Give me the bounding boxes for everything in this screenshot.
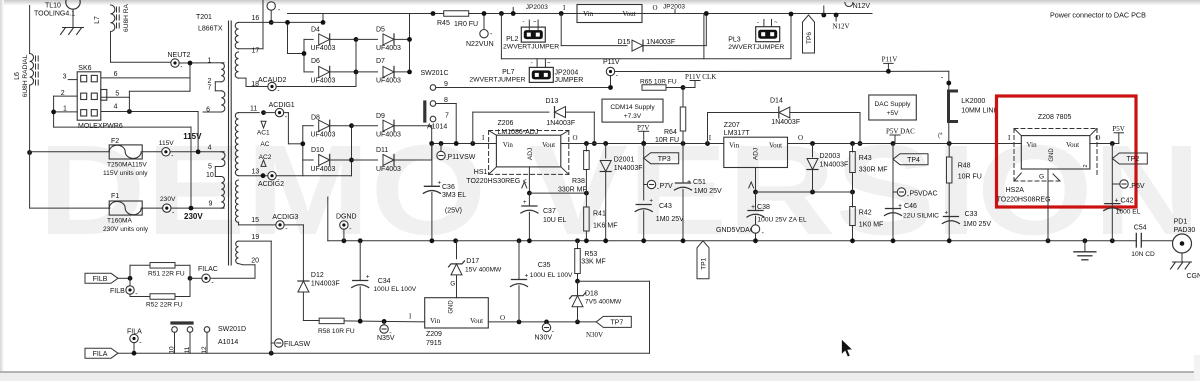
testpoint N22VUN [483,14,485,30]
svg-text:CGN: CGN [1187,273,1200,280]
svg-text:O: O [573,134,578,142]
svg-text:N30V: N30V [586,331,603,339]
resistor R43 330R MF [852,144,854,153]
svg-text:230V: 230V [184,212,203,221]
svg-text:D2001: D2001 [614,157,635,164]
svg-text:P11V CLK: P11V CLK [685,73,716,81]
resistor R42 1K0 MF [852,192,854,207]
resistor R51 22R FU [130,264,150,266]
zener D18 7V5 400MW [572,296,583,307]
inductor L7 6U8H RADIAL [111,5,115,32]
node P11VCLK junction [681,85,686,90]
secondary winding 13-15 [235,180,238,222]
svg-text:8: 8 [444,97,448,104]
testpoint P7V [641,141,646,146]
node D18 junction [575,279,580,284]
svg-text:L7: L7 [94,16,101,24]
svg-text:JUMPER: JUMPER [555,77,584,84]
svg-text:A1014: A1014 [218,339,238,346]
svg-text:Vin: Vin [1027,141,1038,149]
svg-text:Vout: Vout [542,141,555,149]
capacitor C43 1M0 25V [636,204,651,206]
tag TP7 [596,316,631,327]
wire pin20 route [254,265,256,279]
pin 17 wire [239,48,264,50]
svg-text:11: 11 [250,106,257,113]
svg-text:UF4003: UF4003 [376,45,401,52]
svg-text:+ C46: + C46 [898,203,917,210]
svg-text:SK6: SK6 [78,65,91,72]
wire L7 to NEUT2 [110,32,112,63]
secondary winding 17-18 [235,52,238,78]
svg-text:ACDIG2: ACDIG2 [258,181,284,188]
svg-text:100U 25V ZA EL: 100U 25V ZA EL [758,217,807,224]
svg-text:HS1: HS1 [474,169,488,176]
Z207 ADJ wire [755,168,757,193]
tag TP3 [644,153,679,164]
svg-text:9: 9 [209,201,213,208]
Z206 ADJ network [528,167,530,193]
svg-text:P5V DAC: P5V DAC [886,128,915,136]
svg-text:1M0 25V: 1M0 25V [656,216,684,223]
svg-text:T201: T201 [196,14,212,21]
svg-text:10R FU: 10R FU [958,174,982,181]
svg-text:4: 4 [208,145,212,152]
svg-text:Vin: Vin [583,10,594,18]
svg-text:N35V: N35V [377,335,395,342]
testpoint N12V top [821,13,826,18]
svg-text:TL10: TL10 [45,3,61,10]
svg-text:+7.3V: +7.3V [624,113,642,120]
bridge1 left column [303,39,305,72]
wire 115V line [30,151,110,153]
testpoint N30V [546,322,548,323]
svg-text:6U8H RADIAL: 6U8H RADIAL [22,54,29,97]
svg-text:A1014: A1014 [427,124,447,131]
svg-text:PL3: PL3 [728,37,741,44]
zener D17 15V 400MW [456,241,458,259]
heatsink HS1 outline [489,131,569,175]
node pin16 junction [269,20,274,25]
svg-text:F1: F1 [111,193,119,200]
wire bridge1 AC feed [287,22,289,53]
svg-text:D14: D14 [770,98,783,105]
secondary winding 11-13 [235,113,238,176]
svg-text:Vin: Vin [430,317,441,325]
tag FILB [85,273,118,283]
svg-text:1N4003F: 1N4003F [820,162,849,169]
resistor R48 10R FU [948,144,950,158]
wire NEUT2 vertical [189,63,191,91]
testpoint ACDIG2 [261,173,266,178]
svg-text:10U EL: 10U EL [543,217,566,224]
node SK6 pin1/2 junction [51,110,56,115]
box CDM14 Supply callout [602,99,663,122]
svg-text:NEUT2: NEUT2 [168,52,191,59]
svg-text:G: G [450,280,455,287]
P5VDAC rail [756,191,853,193]
regulator Z209 7915 [425,298,489,328]
testpoint N35V [382,319,387,324]
svg-text:2WVERTJUMPER: 2WVERTJUMPER [503,44,559,51]
jumper PL3 2WVERTJUMPER [763,20,765,27]
primary winding 7-6 [221,91,225,112]
svg-text:TO220HS30REG: TO220HS30REG [466,178,520,185]
node P11V net tie [886,69,891,74]
svg-text:Vout: Vout [769,142,782,150]
svg-text:3: 3 [63,74,67,81]
resistor R64 10R FU [682,88,684,107]
svg-text:-: - [531,61,533,67]
svg-text:C36: C36 [442,184,455,191]
svg-text:20: 20 [251,258,259,265]
svg-text:JP2003: JP2003 [663,4,685,11]
resistor R41 1K6 MF [585,193,587,207]
link LK2000 10MM LINK [949,91,957,122]
svg-text:C43: C43 [659,203,672,210]
resistor R58 10R FU [319,318,344,324]
net arrow AC1 [261,121,266,128]
svg-text:3M3 EL: 3M3 EL [442,192,466,199]
page bottom edge and gray band [0,373,1200,381]
svg-text:LK2000: LK2000 [961,98,985,105]
wire P5V column [1111,144,1113,241]
pin 11 wire [239,112,260,114]
svg-text:22U SILMIC: 22U SILMIC [903,213,939,220]
bridge2 mid column [351,126,353,176]
pin 15 wire / ACDIG3 [238,222,240,225]
capacitor C36 3M3 EL [431,144,433,187]
svg-text:TO220HS08REG: TO220HS08REG [997,197,1051,204]
svg-text:+: + [523,199,527,206]
svg-text:PAD30: PAD30 [1174,227,1196,234]
testpoint P11VSW [440,144,442,152]
jumper PL2 2WVERTJUMPER [528,20,530,30]
resistor R45 1R0 FU [444,11,469,17]
wire [72,9,74,27]
secondary winding 16-17 [235,22,238,48]
chassis ground for TL10 [63,27,84,29]
svg-text:T160MA: T160MA [107,218,133,225]
testpoint P5VDAC [893,191,897,193]
svg-text:P11VSW: P11VSW [448,154,476,161]
page left edge shading [0,0,4,372]
svg-text:C37: C37 [543,208,556,215]
diode D15 1N4003F bypass [559,11,564,16]
svg-text:1N4003F: 1N4003F [646,39,675,46]
connector SK6 MOLEXPWR6 [77,72,101,120]
box PL3 enclosure [703,14,705,59]
node 115V junction [196,149,201,154]
svg-text:C34: C34 [378,278,391,285]
svg-text:JP2004: JP2004 [555,70,579,77]
svg-text:FILAC: FILAC [198,266,218,273]
node FILA junction [132,351,137,356]
diode D2001 1N4003F [605,144,607,159]
svg-text:1N4003F: 1N4003F [546,120,575,127]
pad TL10 TOOLING4.1 [66,0,80,9]
wire PL2 drop [499,11,504,16]
svg-text:TP4: TP4 [907,157,920,164]
node pin16 rail tie [322,14,324,23]
svg-text:6: 6 [206,107,210,114]
testpoint FILASW [269,351,274,356]
svg-text:2: 2 [1083,164,1089,167]
svg-text:O: O [798,134,803,142]
svg-text:P7V: P7V [660,183,674,190]
secondary winding 19-20 [236,241,239,264]
svg-text:10N CD: 10N CD [1131,251,1155,258]
svg-text:TP1: TP1 [701,257,708,269]
svg-text:CDM14 Supply: CDM14 Supply [610,104,655,111]
svg-text:~: ~ [774,20,778,26]
capacitor C35 100U EL 100V [518,241,520,280]
svg-text:+ C51: + C51 [687,179,706,186]
svg-text:Z209: Z209 [426,331,442,338]
svg-text:6: 6 [114,71,118,78]
svg-text:TP7: TP7 [610,320,623,327]
tag TP6 [803,15,815,53]
svg-text:100U EL 100V: 100U EL 100V [530,272,573,279]
resistor R53 33K MF [577,241,579,249]
svg-text:O: O [653,4,658,12]
svg-text:R42: R42 [859,210,872,217]
tag TP1 [697,241,709,279]
svg-text:GND5VDAC: GND5VDAC [716,227,755,234]
svg-text:JP2003: JP2003 [526,4,548,11]
switch SW201D A1014 [172,321,192,324]
svg-text:ACDIG1: ACDIG1 [269,102,295,109]
wire D18 return loop [578,280,650,282]
svg-text:R53: R53 [584,251,597,258]
capacitor C37 10U EL [528,193,530,206]
svg-text:Vout: Vout [623,10,636,18]
svg-text:L6: L6 [14,72,21,80]
svg-text:15: 15 [251,217,259,224]
svg-text:9: 9 [444,81,448,88]
svg-text:+ C38: + C38 [751,204,770,211]
svg-text:AC2: AC2 [259,154,272,161]
jumper PL7 2WVERTJUMPER [536,59,538,67]
svg-text:R48: R48 [958,163,971,170]
svg-text:UF4003: UF4003 [311,132,336,139]
svg-text:FILB: FILB [93,276,108,283]
svg-text:4: 4 [114,103,118,110]
svg-text:R58 10R FU: R58 10R FU [318,328,355,335]
svg-text:10: 10 [206,172,214,179]
wire P11V down to LK2000 [948,71,950,90]
chassis ground CGN [1181,253,1183,262]
svg-text:F2: F2 [111,138,119,145]
node C34 junction [358,319,363,324]
svg-text:D18: D18 [585,291,598,298]
svg-text:1K0 MF: 1K0 MF [859,222,884,229]
svg-text:D4: D4 [311,27,320,34]
wire down to 230V line [29,153,31,209]
svg-text:2WVERTJUMPER: 2WVERTJUMPER [728,44,784,51]
transformer core [228,21,230,265]
wire Z208 out P5V [1090,143,1119,145]
svg-text:ADJ: ADJ [527,148,534,160]
svg-text:(*: (* [938,133,943,139]
svg-text:R51 22R FU: R51 22R FU [148,271,185,278]
svg-text:PL2: PL2 [506,36,519,43]
svg-text:7915: 7915 [426,340,442,347]
svg-text:Z206: Z206 [498,120,514,127]
svg-text:5: 5 [208,164,212,171]
svg-text:UF4003: UF4003 [376,78,401,85]
svg-text:L866TX: L866TX [198,26,223,33]
svg-text:+: + [437,179,441,186]
regulator top Vin Vout box [577,5,642,23]
svg-text:O: O [1095,134,1100,142]
svg-text:6U8H RA: 6U8H RA [123,3,130,31]
svg-text:TP3: TP3 [658,156,671,163]
capacitor C46 22U SILMIC [886,208,901,210]
highlight red box [997,96,1137,207]
svg-text:C54: C54 [1134,225,1147,232]
svg-text:D9: D9 [376,113,385,120]
svg-text:TOOLING4.1: TOOLING4.1 [34,11,75,18]
svg-text:AC1: AC1 [257,130,270,137]
resistor R38 330R MF [585,144,587,152]
bridge2 left column [302,126,304,176]
svg-text:+5V: +5V [887,110,900,117]
node pin4 junction [127,109,132,114]
svg-text:HS2A: HS2A [1006,187,1025,194]
primary winding 10-9 [221,177,224,209]
svg-text:1R0 FU: 1R0 FU [454,21,478,28]
svg-text:FILA: FILA [93,351,108,358]
svg-text:+: + [649,198,653,205]
wire ground rail [328,240,1137,242]
svg-text:(25V): (25V) [445,208,462,215]
wire L6 down to 115V line [29,85,31,153]
bridge1 right column to top rail [409,14,411,72]
svg-text:7: 7 [208,84,212,91]
diode D14 1N4003F bypass [707,113,709,144]
svg-text:10: 10 [169,346,176,354]
svg-text:P5V: P5V [1112,125,1124,133]
svg-text:DAC Supply: DAC Supply [875,101,912,108]
svg-text:Power connector to DAC PCB: Power connector to DAC PCB [1050,11,1146,20]
svg-text:GND: GND [449,300,455,314]
wire ACDIG3 down across ground rail to D12 [302,225,304,281]
svg-text:SW201D: SW201D [218,326,246,333]
svg-text:11: 11 [184,346,191,353]
svg-text:+: + [366,274,370,281]
svg-text:N12V: N12V [853,3,871,10]
svg-text:-: - [757,20,759,26]
svg-text:12: 12 [201,346,208,354]
svg-text:D5: D5 [376,27,385,34]
node 230V junction [189,206,194,211]
wire pin4 to 115V [128,97,130,111]
svg-text:1: 1 [208,58,212,65]
svg-text:Vout: Vout [1066,141,1079,149]
svg-text:C33: C33 [965,211,978,218]
svg-text:P5VDAC: P5VDAC [910,191,938,198]
wire top rail [288,13,444,15]
svg-text:D2003: D2003 [820,153,841,160]
svg-text:Vin: Vin [729,142,740,150]
bridge1 mid column [355,39,357,86]
svg-text:UF4003: UF4003 [311,78,336,85]
capacitor C51 1M0 25V [682,144,684,184]
svg-text:2WVERTJUMPER: 2WVERTJUMPER [469,77,525,84]
svg-text:+: + [525,273,529,280]
wire main rail to Z206 [432,143,497,145]
svg-text:P11V: P11V [882,56,898,64]
svg-text:R41: R41 [593,211,606,218]
svg-text:1M0 25V: 1M0 25V [963,221,991,228]
tag TP4 [893,154,928,165]
svg-text:17: 17 [252,48,260,55]
svg-text:D13: D13 [546,98,559,105]
svg-text:D10: D10 [311,147,324,154]
wire pin19 down to FILASW [270,241,272,353]
capacitor C34 100U EL 100V [359,241,361,281]
svg-text:D17: D17 [466,258,479,265]
svg-text:TP6: TP6 [806,32,813,44]
diode D2003 1N4003F [812,144,814,158]
testpoint P5V [1112,183,1120,185]
bridge2 right column [431,126,433,160]
testpoint top right of pin16 [270,10,272,22]
svg-text:330R MF: 330R MF [558,187,587,194]
svg-text:G: G [1039,174,1044,181]
svg-text:D12: D12 [311,272,324,279]
svg-text:N22VUN: N22VUN [466,41,494,48]
svg-text:19: 19 [252,234,260,241]
svg-text:LM317T: LM317T [724,130,750,137]
box DAC Supply callout [869,95,917,120]
svg-text:R38: R38 [572,178,585,185]
svg-text:UF4003: UF4003 [311,166,336,173]
svg-text:TP2: TP2 [1126,156,1139,163]
svg-text:7: 7 [445,113,449,120]
SK6 key tab [101,90,107,101]
svg-text:GND: GND [1049,148,1055,162]
node junction 115V line left [27,150,32,155]
svg-text:10R FU: 10R FU [655,137,679,144]
svg-text:C35: C35 [538,262,551,269]
svg-text:230V: 230V [160,196,176,203]
svg-text:FILB: FILB [110,288,125,295]
svg-text:D15: D15 [618,39,631,46]
node FILB junction [128,276,133,281]
heatsink HS2A outline [1014,129,1097,182]
svg-text:1N4003F: 1N4003F [311,281,340,288]
svg-text:1N4003F: 1N4003F [771,119,800,126]
inductor L6 6U8H RADIAL [29,6,31,54]
svg-text:R45: R45 [437,20,450,27]
svg-text:Vin: Vin [503,141,514,149]
svg-text:D6: D6 [311,58,320,65]
node FILAC junction [188,276,193,281]
svg-text:R52 22R FU: R52 22R FU [146,302,183,309]
svg-text:FILASW: FILASW [284,341,310,348]
svg-text:~: ~ [533,20,537,26]
svg-text:115V: 115V [159,140,175,147]
wire pin16 to bridge [271,21,323,23]
svg-text:O: O [500,314,505,322]
svg-text:15V 400MW: 15V 400MW [465,266,502,273]
primary winding 1-2 [221,63,224,82]
Z208 GND wire [1047,169,1049,241]
svg-text:DGND: DGND [336,214,357,221]
svg-text:33K MF: 33K MF [581,259,606,266]
